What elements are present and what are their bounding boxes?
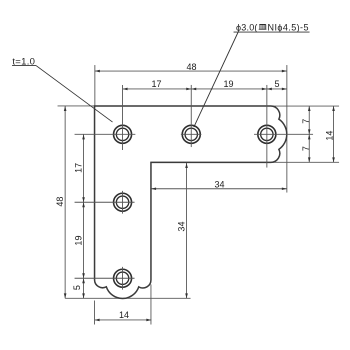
arrows 14 right [332, 106, 335, 111]
wire: extension line x=94 below plate for 14 dim [94, 301, 96, 325]
hole H5 [75, 267, 135, 290]
wire: extension line plate top edge to right dims (y=105.5) [269, 105, 340, 107]
wire: extension line x=150.4 below plate for 14 dim [150, 285, 152, 325]
dimension 48 left (vertical) [64, 106, 66, 298]
arrows 7/7 right [308, 106, 311, 111]
svg-text:NIϕ4.5)-5: NIϕ4.5)-5 [268, 22, 309, 32]
hole H2 [181, 85, 202, 147]
svg-text:19: 19 [74, 236, 84, 246]
hole H1 [75, 85, 136, 150]
dimension 5 top [267, 88, 287, 90]
wire: long extension line y=297.8 below plate [65, 297, 190, 299]
svg-text:ϕ3.0(: ϕ3.0( [236, 22, 258, 32]
dimension 34 vertical [186, 163, 188, 298]
arrows 14 bottom [95, 319, 100, 322]
wire: extension line y=161.8 from inner corner for vertical 34 dim [151, 161, 191, 163]
svg-text:14: 14 [119, 310, 129, 320]
svg-text:5: 5 [72, 285, 82, 290]
svg-text:5: 5 [275, 79, 280, 89]
arrows 34 vertical [185, 163, 188, 168]
svg-text:17: 17 [74, 163, 84, 173]
dimension 14 bottom [95, 319, 152, 321]
arrows (drawn as explicit triangles) [64, 70, 335, 322]
dimension 17 top [123, 88, 192, 90]
wire: extension line bottom edge of arm to right dims (y=161.8) [271, 161, 340, 163]
svg-text:48: 48 [55, 197, 65, 207]
dimension 7 upper right [308, 106, 310, 162]
plate outline (L bracket with scalloped ends) [95, 106, 287, 298]
svg-text:7: 7 [301, 146, 311, 151]
wire: extension line x=94.3 above plate for 48 dim [94, 65, 96, 106]
svg-text:7: 7 [301, 119, 311, 124]
hole H4 [75, 191, 135, 214]
dimension 19 top [191, 88, 267, 90]
dimension 14 right [333, 106, 335, 162]
hole H3 [254, 85, 313, 168]
kanji sara (dish) drawn as strokes [259, 24, 267, 29]
svg-text:48: 48 [187, 62, 197, 72]
arrows 17/19/5 top [123, 88, 128, 91]
arrows 48 top [95, 70, 100, 73]
arrows 17/19/5 left [82, 134, 85, 139]
arrows 48 left [64, 106, 67, 111]
dimension 34 horizontal [151, 188, 287, 190]
svg-text:19: 19 [224, 79, 234, 89]
arrows 34 horizontal [151, 187, 156, 190]
svg-text:34: 34 [215, 180, 225, 190]
wire: long extension line x=286.3 right side [286, 65, 288, 193]
svg-text:34: 34 [177, 222, 187, 232]
svg-text:17: 17 [152, 79, 162, 89]
dimension 17 left (vertical) [83, 134, 85, 298]
wire: extension line top-left corner (y=105.4) [58, 105, 96, 107]
svg-text:14: 14 [324, 131, 334, 141]
dimension 48 top [95, 70, 287, 72]
